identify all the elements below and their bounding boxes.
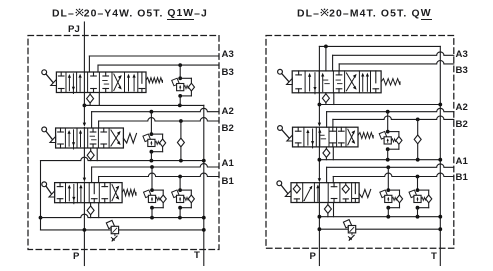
label right title DL-*20-M4T. O5T. QW xyxy=(297,8,432,20)
wire carryover stub valve1 (right) xyxy=(325,46,327,71)
right manifold dashed enclosure xyxy=(266,36,454,249)
directional valve V3 (right row3) xyxy=(291,183,359,203)
spring valve V2 (right) xyxy=(358,133,373,139)
wire valve1 carryover stub (right) xyxy=(333,93,335,105)
wire port line A2 (left) xyxy=(91,112,93,128)
main relief valve (left bottom) xyxy=(106,220,118,241)
wire relief drop A2 (right row2) xyxy=(387,112,389,132)
directional valve V1 (right row1) xyxy=(292,71,381,94)
lever operator valve V2 (left) xyxy=(42,127,56,143)
wire port line B1 (left) xyxy=(98,177,100,183)
directional valve V2 (left row2) xyxy=(56,128,124,149)
wire P supply line PJ (left) xyxy=(83,22,85,125)
label port B1 (right) xyxy=(456,172,468,183)
label port T (right) xyxy=(431,251,437,262)
check valve below valve1 (left) xyxy=(84,93,93,106)
wire port line A1 (left) xyxy=(91,167,93,182)
wire relief drop A1 (right row3) xyxy=(387,167,389,190)
wire T return line (left) xyxy=(203,105,205,265)
wire relief drop B1 (left row3) xyxy=(179,177,181,191)
label port A3 (left) xyxy=(222,49,234,60)
wire relief drop B3 (left row1) xyxy=(179,65,181,78)
lever operator valve V3 (left) xyxy=(42,182,55,197)
check valve below valve3 (left) xyxy=(87,203,94,218)
wire port line A2 (right) xyxy=(326,112,328,128)
wire P line lower (right) xyxy=(318,183,320,230)
arrow P into valve3 (left) xyxy=(83,178,86,182)
wire valve2 drain stub (right) xyxy=(332,147,334,160)
label port A1 (left) xyxy=(222,158,234,169)
label node PJ (left) xyxy=(68,24,80,35)
pilot relief valve with anticav check B1 (left row3) xyxy=(172,188,195,209)
wire port line B2 (right) xyxy=(332,119,334,127)
check valve below valve1 (right) xyxy=(319,93,329,105)
label port T (left) xyxy=(194,250,200,261)
label port A1 (right) xyxy=(456,156,468,167)
label port P (left) xyxy=(73,251,80,262)
spring valve V1 (right) xyxy=(381,79,400,85)
spring valve V3 (right) xyxy=(359,190,371,198)
pilot relief valve with anticav check A1 (right row3) xyxy=(380,188,403,209)
label port B1 (left) xyxy=(222,176,234,187)
pilot relief valve with anticav check (right row2) xyxy=(379,130,402,151)
wire junction gallery (right row1) xyxy=(319,104,440,106)
wire tank gallery y160 (right) xyxy=(319,159,440,161)
spring valve V1 (left) xyxy=(146,78,163,83)
wire relief drop to gallery (left row2) xyxy=(150,152,152,161)
wire port line B3 (right) xyxy=(338,64,340,71)
wire left drain vertical xyxy=(40,161,42,230)
wire relief drop to gallery A1 (left row3) xyxy=(151,208,153,218)
wire P-T junction gallery line (left) xyxy=(84,104,203,106)
wire relief drop to gallery A1 (right row3) xyxy=(387,208,389,217)
label port B3 (left) xyxy=(222,67,234,78)
wire P supply line (right) xyxy=(318,46,320,124)
lever operator valve V1 (left) xyxy=(42,70,57,86)
wire port line A1 (right) xyxy=(326,167,328,182)
arrow P into valve2 (right) xyxy=(318,123,321,127)
wire bottom relief line (right) xyxy=(319,228,440,230)
label port A3 (right) xyxy=(456,49,468,60)
main relief valve (right bottom) xyxy=(343,220,355,241)
wire valve3 carryover stub (right) xyxy=(333,203,335,217)
directional valve V2 (right row2) xyxy=(293,127,359,148)
wire T return line (right) xyxy=(439,46,441,265)
spring valve V3 (left) xyxy=(122,189,136,195)
wire P line lower segment (left) xyxy=(83,182,85,230)
label port B3 (right) xyxy=(456,65,468,76)
pilot relief valve with anticav check (left row1) xyxy=(172,76,195,97)
wire P line through valve2 to valve3 (left) xyxy=(83,128,85,180)
wire P port stub (right) xyxy=(318,229,320,265)
arrow P into valve3 (right) xyxy=(318,178,321,182)
label port A2 (left) xyxy=(222,106,234,117)
check valve below valve2 (right) xyxy=(323,147,330,160)
wire relief drop B1 (right row3) xyxy=(417,177,419,191)
wire tank gallery y216 (right) xyxy=(319,216,440,218)
pilot relief valve with anticav check B1 (right row3) xyxy=(409,188,432,209)
label port P (right) xyxy=(310,251,317,262)
wire port line B1 (right) xyxy=(332,177,334,183)
label port B2 (left) xyxy=(222,123,234,134)
check valve below valve3 (right) xyxy=(324,203,331,217)
lever operator valve V2 (right) xyxy=(278,126,293,141)
label port A2 (right) xyxy=(456,102,468,113)
check valve below valve2 (left) xyxy=(87,148,94,161)
spring valve V2 (left) xyxy=(123,134,136,144)
directional valve V3 (left row3) xyxy=(55,183,123,204)
wire tank gallery line y217 (left) xyxy=(41,214,204,217)
wire P port stub below border (left) xyxy=(83,230,85,266)
lever operator valve V1 (right) xyxy=(278,69,293,84)
wire open-center carryover line (right) xyxy=(319,45,440,47)
left manifold dashed enclosure xyxy=(28,36,219,250)
pilot relief valve with anticav check (left row2) xyxy=(143,132,166,153)
lever operator valve V3 (right) xyxy=(277,181,291,197)
wire relief drop A1 (left row3) xyxy=(151,167,153,190)
directional valve V1 (left row1) xyxy=(56,72,146,94)
wire port line A3 (right) xyxy=(332,55,334,71)
anticavitation check valve B2 (right row2) xyxy=(414,119,421,159)
wire relief drop A2 (left row2) xyxy=(150,112,152,134)
wire relief drop to gallery B1 (right row3) xyxy=(417,208,419,217)
wire port line B2 (left) xyxy=(98,121,100,128)
wire bottom relief line (left) xyxy=(41,229,204,231)
wire relief drop to gallery B1 (left row3) xyxy=(179,208,181,218)
wire relief drop to gallery (right row2) xyxy=(387,149,389,160)
wire port line A3 (left) xyxy=(88,56,90,72)
label left title DL-*20-Y4W. O5T. Q1W-J xyxy=(52,8,208,20)
pilot relief valve with anticav check A1 (left row3) xyxy=(144,188,167,209)
label port B2 (right) xyxy=(456,119,468,130)
wire port line B3 (left) xyxy=(97,65,99,72)
wire valve1 carryover stub (left) xyxy=(98,93,100,106)
wire valve2 carryover stub (left) xyxy=(96,148,98,161)
wire relief drop to gallery (left row1) xyxy=(179,96,181,106)
anticavitation check valve B2 (left row2) xyxy=(177,121,184,161)
arrow P into valve2 (left) xyxy=(83,123,86,127)
wire valve3 carryover stub (left) xyxy=(98,203,100,218)
wire tank gallery line y160 (left) xyxy=(41,157,204,160)
wire P line mid (right) xyxy=(318,128,320,180)
